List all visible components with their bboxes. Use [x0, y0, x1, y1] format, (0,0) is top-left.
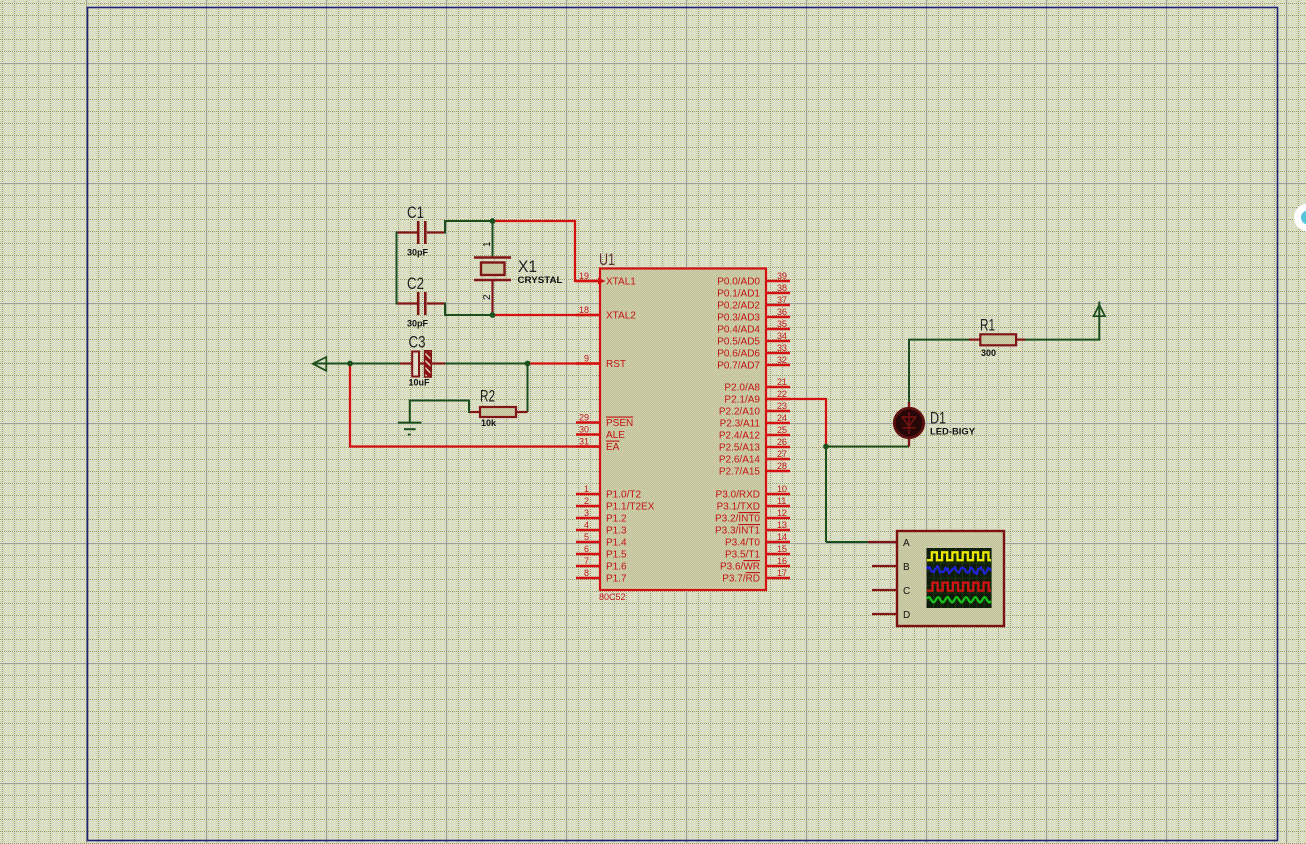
- svg-text:1: 1: [482, 241, 493, 247]
- svg-text:EA: EA: [606, 442, 620, 453]
- svg-text:X1: X1: [518, 258, 537, 276]
- svg-text:17: 17: [777, 568, 787, 578]
- svg-text:27: 27: [777, 449, 787, 459]
- svg-text:RST: RST: [606, 359, 626, 370]
- svg-text:P0.2/AD2: P0.2/AD2: [717, 301, 760, 312]
- svg-text:C3: C3: [409, 334, 426, 352]
- svg-text:P3.1/TXD: P3.1/TXD: [717, 502, 760, 513]
- svg-text:26: 26: [777, 437, 787, 447]
- svg-text:12: 12: [777, 508, 787, 518]
- svg-text:14: 14: [777, 532, 787, 542]
- svg-text:P0.5/AD5: P0.5/AD5: [717, 337, 760, 348]
- svg-text:29: 29: [579, 413, 589, 423]
- svg-text:P3.2/INT0: P3.2/INT0: [715, 514, 760, 525]
- svg-text:15: 15: [777, 544, 787, 554]
- svg-text:P1.0/T2: P1.0/T2: [606, 490, 641, 501]
- svg-text:18: 18: [579, 305, 589, 315]
- svg-text:P1.4: P1.4: [606, 538, 627, 549]
- svg-text:37: 37: [777, 295, 787, 305]
- svg-text:U1: U1: [599, 251, 615, 269]
- svg-text:P2.3/A11: P2.3/A11: [720, 419, 761, 430]
- svg-text:P2.6/A14: P2.6/A14: [719, 455, 761, 466]
- svg-text:2: 2: [482, 294, 493, 300]
- svg-text:21: 21: [777, 377, 787, 387]
- svg-text:10k: 10k: [481, 418, 497, 428]
- svg-text:B: B: [903, 562, 910, 573]
- svg-text:P0.1/AD1: P0.1/AD1: [717, 289, 760, 300]
- svg-text:33: 33: [777, 343, 787, 353]
- svg-text:39: 39: [777, 271, 787, 281]
- svg-text:19: 19: [579, 271, 589, 281]
- svg-text:PSEN: PSEN: [606, 418, 633, 429]
- svg-text:C1: C1: [407, 204, 424, 222]
- svg-text:ALE: ALE: [606, 430, 625, 441]
- svg-text:31: 31: [579, 437, 589, 447]
- svg-text:9: 9: [584, 354, 589, 364]
- svg-text:P2.1/A9: P2.1/A9: [724, 395, 760, 406]
- svg-text:4: 4: [584, 520, 589, 530]
- svg-text:10: 10: [777, 484, 787, 494]
- svg-text:P0.4/AD4: P0.4/AD4: [717, 325, 760, 336]
- svg-text:P2.0/A8: P2.0/A8: [724, 383, 760, 394]
- svg-text:XTAL1: XTAL1: [606, 277, 636, 288]
- svg-text:P1.2: P1.2: [606, 514, 627, 525]
- svg-text:XTAL2: XTAL2: [606, 311, 636, 322]
- svg-text:P1.5: P1.5: [606, 550, 627, 561]
- svg-text:8: 8: [584, 568, 589, 578]
- svg-text:R2: R2: [480, 388, 495, 406]
- svg-text:P2.2/A10: P2.2/A10: [719, 407, 761, 418]
- svg-text:P0.6/AD6: P0.6/AD6: [717, 349, 760, 360]
- svg-text:D1: D1: [930, 410, 946, 428]
- svg-text:35: 35: [777, 319, 787, 329]
- svg-text:13: 13: [777, 520, 787, 530]
- svg-text:36: 36: [777, 307, 787, 317]
- svg-text:7: 7: [584, 556, 589, 566]
- svg-text:P2.4/A12: P2.4/A12: [719, 431, 761, 442]
- svg-text:16: 16: [777, 556, 787, 566]
- svg-text:38: 38: [777, 283, 787, 293]
- svg-text:P1.6: P1.6: [606, 562, 627, 573]
- svg-text:P2.7/A15: P2.7/A15: [719, 467, 761, 478]
- svg-text:22: 22: [777, 389, 787, 399]
- svg-text:P0.0/AD0: P0.0/AD0: [717, 277, 760, 288]
- svg-text:300: 300: [981, 348, 996, 358]
- svg-text:3: 3: [584, 508, 589, 518]
- svg-text:CRYSTAL: CRYSTAL: [518, 275, 564, 285]
- svg-text:28: 28: [777, 461, 787, 471]
- svg-text:P3.6/WR: P3.6/WR: [720, 562, 760, 573]
- svg-text:P0.7/AD7: P0.7/AD7: [717, 361, 760, 372]
- svg-text:5: 5: [584, 532, 589, 542]
- svg-text:P0.3/AD3: P0.3/AD3: [717, 313, 760, 324]
- svg-text:10uF: 10uF: [409, 378, 431, 388]
- svg-text:1: 1: [584, 484, 589, 494]
- svg-text:11: 11: [777, 496, 786, 506]
- svg-text:P3.4/T0: P3.4/T0: [725, 538, 760, 549]
- svg-text:30pF: 30pF: [407, 319, 429, 329]
- svg-text:2: 2: [584, 496, 589, 506]
- svg-text:P3.3/INT1: P3.3/INT1: [715, 526, 760, 537]
- svg-text:30: 30: [579, 425, 589, 435]
- svg-text:C: C: [903, 586, 910, 597]
- svg-text:P3.0/RXD: P3.0/RXD: [716, 490, 760, 501]
- svg-text:P3.7/RD: P3.7/RD: [722, 574, 760, 585]
- svg-text:6: 6: [584, 544, 589, 554]
- svg-text:R1: R1: [980, 317, 995, 335]
- svg-text:P1.7: P1.7: [606, 574, 627, 585]
- svg-text:32: 32: [777, 355, 787, 365]
- svg-text:24: 24: [777, 413, 787, 423]
- svg-text:A: A: [903, 538, 910, 549]
- svg-text:34: 34: [777, 331, 787, 341]
- svg-text:P2.5/A13: P2.5/A13: [719, 443, 761, 454]
- svg-text:23: 23: [777, 401, 787, 411]
- svg-text:30pF: 30pF: [407, 248, 429, 258]
- svg-text:LED-BIGY: LED-BIGY: [930, 427, 975, 437]
- svg-text:P1.1/T2EX: P1.1/T2EX: [606, 502, 655, 513]
- svg-text:D: D: [903, 610, 910, 621]
- svg-text:80C52: 80C52: [599, 592, 626, 602]
- svg-text:P3.5/T1: P3.5/T1: [725, 550, 760, 561]
- svg-text:C2: C2: [407, 275, 424, 293]
- svg-text:P1.3: P1.3: [606, 526, 627, 537]
- svg-text:25: 25: [777, 425, 787, 435]
